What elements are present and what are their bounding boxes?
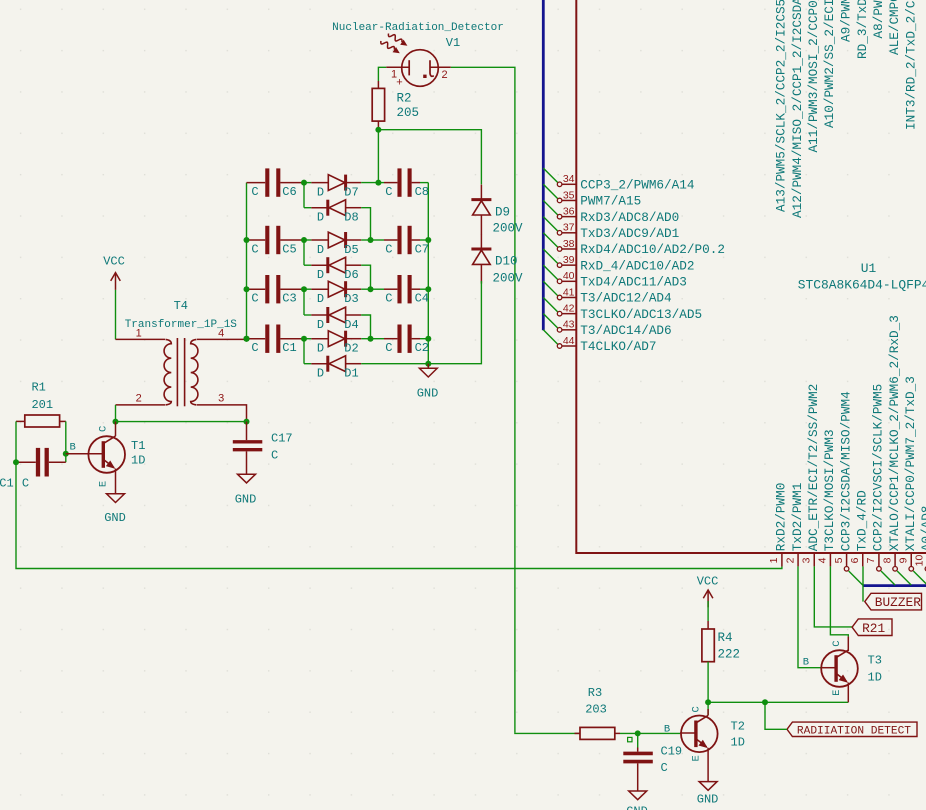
svg-text:C: C xyxy=(22,477,29,491)
label GND C17 xyxy=(235,492,257,506)
capacitor C1 xyxy=(247,325,305,353)
svg-text:RADIIATION DETECT: RADIIATION DETECT xyxy=(797,726,911,738)
junction below R2 xyxy=(375,127,381,133)
pin name top A11/PWM3/MOSI_2/CCP0_2/I2CSCL xyxy=(806,0,821,153)
svg-text:4: 4 xyxy=(218,328,224,340)
photo-tube V1 xyxy=(386,50,451,87)
svg-text:PWM7/A15: PWM7/A15 xyxy=(580,194,641,209)
pin number 1 bottom xyxy=(768,557,780,563)
diode D4 xyxy=(304,289,361,323)
resistor R2 xyxy=(372,81,384,127)
power VCC transformer xyxy=(111,273,121,290)
pin number 39 xyxy=(563,254,575,266)
pin number 44 xyxy=(563,335,575,347)
bus entry pin 40 xyxy=(543,265,558,280)
pin 38 of U1 xyxy=(557,247,576,252)
junction R3 T2 C19 xyxy=(635,730,641,736)
svg-text:1D: 1D xyxy=(731,736,745,750)
wire pin6 to BUZZER xyxy=(862,566,864,601)
svg-text:C: C xyxy=(831,640,843,646)
svg-text:39: 39 xyxy=(563,254,575,266)
power VCC R4 xyxy=(703,590,713,607)
label C of C17 xyxy=(271,449,278,463)
pin name T3CLKO/MOSI/PWM3 xyxy=(822,429,837,551)
wire transformer bottom xyxy=(116,421,247,423)
svg-text:VCC: VCC xyxy=(697,575,719,589)
pin 10 of U1 xyxy=(925,553,926,571)
label 200V D10 xyxy=(493,271,524,285)
svg-text:T1: T1 xyxy=(131,439,145,453)
diode D3 xyxy=(304,281,361,297)
svg-text:CCP2/I2CVSCI/SCLK/PWM5: CCP2/I2CVSCI/SCLK/PWM5 xyxy=(871,384,886,552)
wire R1 left down xyxy=(15,421,17,462)
svg-text:R4: R4 xyxy=(718,631,733,645)
svg-text:C4: C4 xyxy=(415,292,429,306)
wire R4 to junction xyxy=(707,662,709,703)
pin number 10 bottom xyxy=(914,555,926,567)
label reference V1 xyxy=(446,36,460,50)
capacitor C17 xyxy=(233,422,262,475)
bus entry pin 9 xyxy=(913,571,926,585)
pin 5 of U1 xyxy=(844,553,849,571)
pin name top RD_3/TxD2_2 xyxy=(855,0,870,59)
svg-text:E: E xyxy=(690,755,702,761)
svg-text:38: 38 xyxy=(563,238,575,250)
radiation arrows xyxy=(381,34,408,54)
plus mark V1 xyxy=(396,77,402,89)
pin 7 of U1 xyxy=(877,553,882,571)
svg-text:4: 4 xyxy=(817,557,829,563)
wire collector node right xyxy=(708,701,848,703)
pin number 1 of T4 xyxy=(136,328,142,340)
svg-text:7: 7 xyxy=(865,557,877,563)
label U1 xyxy=(861,261,877,276)
label GND C19 xyxy=(626,805,648,810)
capacitor C7 xyxy=(371,226,429,254)
label B of T1 xyxy=(69,441,75,453)
wire branch to label xyxy=(765,702,787,729)
bus entry pin 39 xyxy=(543,249,558,264)
capacitor C1 base xyxy=(16,448,66,477)
pin name CCP3_2/PWM6/A14 xyxy=(580,178,694,193)
svg-text:1: 1 xyxy=(768,557,780,563)
label C5 xyxy=(282,243,296,257)
pin number 9 bottom xyxy=(898,557,910,563)
pin 41 of U1 xyxy=(557,295,576,300)
label D of D3 xyxy=(317,292,324,306)
wire pin4 to T3 collector xyxy=(830,566,848,636)
svg-text:C1: C1 xyxy=(0,477,14,491)
diode D6 xyxy=(304,240,361,273)
bus entry pin 36 xyxy=(543,200,558,215)
label C of C3 xyxy=(251,292,258,306)
label C4 xyxy=(415,292,429,306)
T1 base pin xyxy=(66,453,104,455)
pin 9 of U1 xyxy=(909,553,914,571)
svg-text:1D: 1D xyxy=(131,454,145,468)
svg-text:40: 40 xyxy=(563,270,575,282)
label C of C8 xyxy=(385,185,392,199)
pin number 1 of V1 xyxy=(391,69,397,81)
svg-text:3: 3 xyxy=(801,557,813,563)
svg-text:35: 35 xyxy=(563,189,575,201)
label C of C1 xyxy=(251,341,258,355)
wire junction to T2 collector xyxy=(707,702,709,715)
wire diode D8 to next row xyxy=(361,208,370,240)
svg-text:T4CLKO/AD7: T4CLKO/AD7 xyxy=(580,339,656,354)
label D of D1 xyxy=(317,367,324,381)
svg-text:6: 6 xyxy=(849,557,861,563)
pin name T4CLKO/AD7 xyxy=(580,339,656,354)
ground C17 xyxy=(238,474,256,483)
svg-text:C5: C5 xyxy=(282,243,296,257)
svg-text:+: + xyxy=(396,77,402,89)
bus entry pin 8 xyxy=(897,571,911,585)
label 205 xyxy=(397,106,420,120)
pin number 5 bottom xyxy=(833,557,845,563)
svg-text:STC8A8K64D4-LQFP48: STC8A8K64D4-LQFP48 xyxy=(798,277,926,292)
bus entry pin 44 xyxy=(543,330,558,345)
pin name PWM7/A15 xyxy=(580,194,641,209)
svg-text:E: E xyxy=(831,690,843,696)
svg-text:D5: D5 xyxy=(344,243,358,257)
label C of T3 xyxy=(831,640,843,646)
svg-text:T4: T4 xyxy=(174,299,188,313)
label E of T1 xyxy=(98,481,110,487)
wire V1 pin1 to R2 xyxy=(378,67,386,81)
label C19 xyxy=(661,745,683,759)
svg-text:44: 44 xyxy=(563,335,575,347)
capacitor C8 xyxy=(378,168,428,196)
transistor T1 xyxy=(88,436,125,473)
pin name TxD4/ADC11/AD3 xyxy=(580,275,687,290)
label C of C1 base xyxy=(22,477,29,491)
svg-text:2: 2 xyxy=(136,393,142,405)
wire R1 right down xyxy=(65,421,67,462)
label GND T1 xyxy=(104,511,126,525)
label C1 base xyxy=(0,477,14,491)
pin 39 of U1 xyxy=(557,263,576,268)
pin name top A10/PWM2/SS_2/ECI_2/CMP xyxy=(822,0,837,128)
T2 emitter pin xyxy=(707,748,709,782)
junction transformer pin4 xyxy=(244,336,250,342)
svg-text:TxD_4/RD: TxD_4/RD xyxy=(855,490,870,551)
wire junction down to C19 xyxy=(637,733,639,747)
pin name top ALE/CMPO_2 xyxy=(887,0,902,55)
wire diode D7 to node xyxy=(361,182,378,184)
svg-text:TxD2/PWM1: TxD2/PWM1 xyxy=(790,483,805,552)
label R3 xyxy=(588,686,602,700)
junction transformer pin2 xyxy=(113,419,119,425)
U1 body border xyxy=(576,0,926,553)
bus entry pin 35 xyxy=(543,184,558,199)
pin name XTALO/CCP1/MCLKO_2/PWM6_2/RxD_3 xyxy=(887,315,902,551)
bus horizontal bottom xyxy=(863,584,926,587)
svg-text:R2: R2 xyxy=(397,92,412,106)
wire pin2 to T3 base xyxy=(798,566,821,667)
label D7 xyxy=(344,186,358,200)
wire pin3 to R21 xyxy=(814,566,852,627)
wire diode D6 to next row xyxy=(361,265,370,289)
pin 44 of U1 xyxy=(557,344,576,349)
svg-text:200V: 200V xyxy=(493,271,524,285)
svg-text:CCP3/I2CSDA/MISO/PWM4: CCP3/I2CSDA/MISO/PWM4 xyxy=(838,391,853,551)
pin 40 of U1 xyxy=(557,279,576,284)
global label RADIIATION DETECT xyxy=(787,722,917,737)
capacitor C2 xyxy=(371,325,429,353)
transistor T3 xyxy=(821,650,858,687)
svg-text:A13/PWM5/SCLK_2/CCP2_2/I2CS5_2: A13/PWM5/SCLK_2/CCP2_2/I2CS5_2 xyxy=(774,0,789,212)
pin number 34 xyxy=(563,173,575,185)
svg-text:D4: D4 xyxy=(344,318,358,332)
svg-text:T2: T2 xyxy=(731,720,745,734)
svg-text:C: C xyxy=(251,243,258,257)
svg-text:RxD_4/ADC10/AD2: RxD_4/ADC10/AD2 xyxy=(580,258,694,273)
ground T2 xyxy=(699,782,717,791)
label D of D6 xyxy=(317,268,324,282)
svg-text:ALE/CMPO_2: ALE/CMPO_2 xyxy=(887,0,902,55)
svg-text:C1: C1 xyxy=(282,341,296,355)
svg-text:T3: T3 xyxy=(868,654,882,668)
pin name TxD2/PWM1 xyxy=(790,483,805,552)
label D of D4 xyxy=(317,318,324,332)
wire pin1 down xyxy=(0,0,1,1)
ground T1 xyxy=(107,494,125,503)
svg-text:T3/ADC14/AD6: T3/ADC14/AD6 xyxy=(580,323,671,338)
pin number 43 xyxy=(563,319,575,331)
label 222 xyxy=(718,648,741,662)
label D9 xyxy=(495,206,510,220)
pin 3 of U1 xyxy=(813,553,815,566)
svg-text:Nuclear-Radiation_Detector: Nuclear-Radiation_Detector xyxy=(332,22,504,34)
label D2 xyxy=(344,342,358,356)
pin name top A8/PWM0_2 xyxy=(871,0,886,39)
svg-text:C: C xyxy=(98,426,110,432)
T2 base pin xyxy=(680,732,696,734)
svg-text:B: B xyxy=(69,441,75,453)
T3 collector pin red xyxy=(847,637,849,651)
svg-text:T3CLKO/ADC13/AD5: T3CLKO/ADC13/AD5 xyxy=(580,307,702,322)
label D1 xyxy=(344,367,358,381)
pin number 2 of T4 xyxy=(136,393,142,405)
diode D5 xyxy=(304,232,361,248)
svg-text:RD_3/TxD2_2: RD_3/TxD2_2 xyxy=(855,0,870,59)
pin name CCP3/I2CSDA/MISO/PWM4 xyxy=(838,391,853,551)
pin name top A9/PWM1_2 xyxy=(839,0,854,42)
pin number 2 bottom xyxy=(784,557,796,563)
svg-text:5: 5 xyxy=(833,557,845,563)
diode D9 xyxy=(471,185,491,235)
label D6 xyxy=(344,268,358,282)
label D of D2 xyxy=(317,342,324,356)
label C of C7 xyxy=(385,243,392,257)
svg-text:ADC_ETR/ECI/T2/SS/PWM2: ADC_ETR/ECI/T2/SS/PWM2 xyxy=(806,384,821,552)
pin name top INT3/RD_2/TxD_2/CMPO xyxy=(903,0,918,130)
svg-text:36: 36 xyxy=(563,205,575,217)
svg-text:C2: C2 xyxy=(415,341,429,355)
svg-text:2: 2 xyxy=(441,69,447,81)
pin name T3/ADC12/AD4 xyxy=(580,291,671,306)
wire V1 pin2 to node down right xyxy=(451,67,515,732)
svg-text:C: C xyxy=(385,243,392,257)
label STC8A8K64D4-LQFP48 xyxy=(798,277,926,292)
diode D7 xyxy=(304,175,361,191)
svg-text:U1: U1 xyxy=(861,261,877,276)
svg-text:222: 222 xyxy=(718,648,741,662)
pin number 4 bottom xyxy=(817,557,829,563)
svg-text:200V: 200V xyxy=(493,222,524,236)
svg-text:C19: C19 xyxy=(661,745,683,759)
label R4 xyxy=(718,631,733,645)
capacitor C6 xyxy=(247,168,305,196)
svg-text:D9: D9 xyxy=(495,206,510,220)
resistor R1 xyxy=(16,415,66,427)
label T2 xyxy=(731,720,745,734)
svg-text:E: E xyxy=(98,481,110,487)
svg-text:37: 37 xyxy=(563,222,575,234)
pin 2 of U1 xyxy=(797,553,799,566)
junction C1 left xyxy=(13,459,19,465)
svg-text:T3/ADC12/AD4: T3/ADC12/AD4 xyxy=(580,291,671,306)
junction radiation branch xyxy=(762,699,768,705)
pin name T3/ADC14/AD6 xyxy=(580,323,671,338)
wire diode D3 to node xyxy=(361,288,370,290)
pin 35 of U1 xyxy=(557,198,576,203)
svg-text:VCC: VCC xyxy=(103,255,125,269)
label 1D of T1 xyxy=(131,454,145,468)
wire D10 to GND row xyxy=(428,281,481,364)
diode D2 xyxy=(304,331,361,347)
label R1 xyxy=(31,381,45,395)
svg-text:TxD4/ADC11/AD3: TxD4/ADC11/AD3 xyxy=(580,275,687,290)
svg-text:C: C xyxy=(385,292,392,306)
diode D10 xyxy=(471,234,491,284)
svg-text:10: 10 xyxy=(914,555,926,567)
svg-text:D: D xyxy=(317,211,324,225)
label D4 xyxy=(344,318,358,332)
svg-text:D10: D10 xyxy=(495,255,518,269)
label C of C5 xyxy=(251,243,258,257)
label R2 xyxy=(397,92,412,106)
wire diode D4 to next row xyxy=(361,315,370,339)
svg-text:D3: D3 xyxy=(344,292,358,306)
pin 34 of U1 xyxy=(557,182,576,187)
pin number 37 xyxy=(563,222,575,234)
pin number 6 bottom xyxy=(849,557,861,563)
pin 37 of U1 xyxy=(557,231,576,236)
bus entry pin 34 xyxy=(543,168,558,183)
svg-text:C7: C7 xyxy=(415,243,429,257)
T3 emitter pin xyxy=(847,683,849,703)
pin name top A12/PWM4/MISO_2/CCP1_2/I2CSDA_2 xyxy=(790,0,805,218)
svg-text:C17: C17 xyxy=(271,432,293,446)
svg-text:205: 205 xyxy=(397,106,420,120)
svg-text:C: C xyxy=(271,449,278,463)
svg-text:INT3/RD_2/TxD_2/CMPO: INT3/RD_2/TxD_2/CMPO xyxy=(903,0,918,130)
pin number 3 bottom xyxy=(801,557,813,563)
svg-text:203: 203 xyxy=(585,703,607,717)
capacitor C3 xyxy=(247,275,305,303)
pin number 38 xyxy=(563,238,575,250)
svg-text:GND: GND xyxy=(626,805,648,810)
pin 43 of U1 xyxy=(557,328,576,333)
bus entry pin 5 xyxy=(849,571,863,585)
wire VCC to transformer pin1 xyxy=(115,290,117,340)
bus entry pin 43 xyxy=(543,314,558,329)
wire R2 junction to D9 xyxy=(378,130,481,185)
svg-text:C: C xyxy=(385,341,392,355)
svg-text:A10/PWM2/SS_2/ECI_2/CMP: A10/PWM2/SS_2/ECI_2/CMP xyxy=(822,0,837,128)
pin 36 of U1 xyxy=(557,214,576,219)
label C8 xyxy=(415,185,429,199)
svg-text:1D: 1D xyxy=(868,671,882,685)
pin 4 of U1 xyxy=(829,553,831,566)
label 201 xyxy=(31,398,53,412)
svg-text:41: 41 xyxy=(563,286,575,298)
pin number 3 of T4 xyxy=(218,393,224,405)
wire diode D1 to ground rail xyxy=(361,363,428,365)
svg-text:A0/AD8: A0/AD8 xyxy=(919,506,926,552)
pin number 4 of T4 xyxy=(218,328,224,340)
svg-text:C: C xyxy=(251,292,258,306)
label T1 xyxy=(131,439,145,453)
svg-text:C: C xyxy=(661,761,668,775)
label 203 xyxy=(585,703,607,717)
pin name RxD2/PWM0 xyxy=(774,483,789,552)
T3 base pin xyxy=(821,667,836,669)
global label R21 xyxy=(852,619,892,636)
T1 emitter pin xyxy=(115,469,117,494)
wire diode D5 to node xyxy=(361,239,370,241)
label D of D8 xyxy=(317,211,324,225)
label D of D7 xyxy=(317,186,324,200)
pin name RxD_4/ADC10/AD2 xyxy=(580,258,694,273)
wire VCC to R4 xyxy=(707,601,709,629)
label B of T3 xyxy=(803,657,809,669)
pin number 42 xyxy=(563,302,575,314)
svg-text:C: C xyxy=(251,341,258,355)
svg-text:D: D xyxy=(317,243,324,257)
svg-text:A11/PWM3/MOSI_2/CCP0_2/I2CSCL: A11/PWM3/MOSI_2/CCP0_2/I2CSCL xyxy=(806,0,821,153)
label C of T1 xyxy=(98,426,110,432)
pin name ADC_ETR/ECI/T2/SS/PWM2 xyxy=(806,384,821,552)
svg-text:R3: R3 xyxy=(588,686,602,700)
junction base tap xyxy=(63,451,69,457)
label C of C6 xyxy=(251,185,258,199)
bus entry pin 37 xyxy=(543,217,558,232)
pin 8 of U1 xyxy=(893,553,898,571)
pin name A0/AD8 xyxy=(919,506,926,552)
svg-text:R1: R1 xyxy=(31,381,45,395)
svg-text:D: D xyxy=(317,268,324,282)
pin 42 of U1 xyxy=(557,311,576,316)
bus entry pin 7 xyxy=(881,571,895,585)
label B of T2 xyxy=(664,723,670,735)
svg-text:42: 42 xyxy=(563,302,575,314)
label GND T2 xyxy=(697,793,719,807)
svg-text:RxD2/PWM0: RxD2/PWM0 xyxy=(774,483,789,552)
label C3 xyxy=(282,292,296,306)
label C of T2 xyxy=(690,706,702,712)
svg-text:D: D xyxy=(317,367,324,381)
label VCC R4 xyxy=(697,575,719,589)
capacitor C19 xyxy=(623,748,653,792)
pin number 7 bottom xyxy=(865,557,877,563)
pin name top A13/PWM5/SCLK_2/CCP2_2/I2CS5_2 xyxy=(774,0,789,212)
junction R4 T2 collector xyxy=(705,699,711,705)
label VCC transformer xyxy=(103,255,125,269)
svg-text:3: 3 xyxy=(218,393,224,405)
